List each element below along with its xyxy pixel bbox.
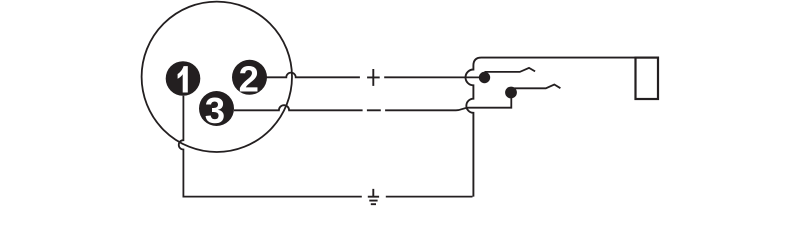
wire hot: pin 2 to tip terminal (with hop over shell) xyxy=(267,73,485,78)
terminal dot: sleeve xyxy=(505,87,517,99)
switch arm: ring/sleeve contact xyxy=(511,85,560,89)
svg-text:3: 3 xyxy=(205,90,225,131)
ground symbol xyxy=(368,189,379,204)
XLR pin 2 disc xyxy=(232,60,267,95)
XLR pin 1 disc xyxy=(166,61,201,96)
wire shield: pin 1 down and along bottom to jack body (hop over shell) xyxy=(179,96,473,197)
terminal dot: tip xyxy=(479,72,490,83)
plus polarity symbol xyxy=(367,69,380,86)
jack tip rectangle xyxy=(636,58,659,99)
XLR male shell circle xyxy=(142,2,292,152)
XLR pin 3 disc xyxy=(199,91,234,126)
pin 1 label xyxy=(178,66,188,92)
jack plug body outline with cable entry cutouts xyxy=(466,58,636,197)
minus polarity symbol xyxy=(367,109,381,111)
switch arm: tip contact xyxy=(485,68,536,72)
svg-text:2: 2 xyxy=(239,58,259,99)
wire cold: pin 3 to sleeve terminal (with hop over shell) xyxy=(234,94,511,110)
